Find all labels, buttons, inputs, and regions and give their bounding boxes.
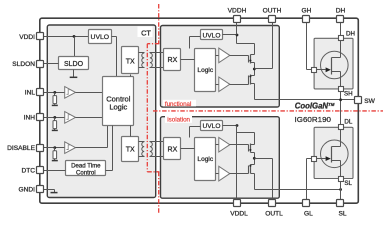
svg-text:Logic: Logic <box>197 67 213 74</box>
svg-text:SLDO: SLDO <box>64 61 84 68</box>
svg-text:UVLO: UVLO <box>203 33 221 40</box>
svg-text:DH: DH <box>336 7 346 14</box>
svg-text:OUTL: OUTL <box>265 211 283 217</box>
svg-text:TX: TX <box>126 58 135 65</box>
svg-text:GH: GH <box>301 7 311 14</box>
svg-text:VDDL: VDDL <box>230 211 248 217</box>
svg-text:RX: RX <box>168 146 178 153</box>
svg-text:VDDI: VDDI <box>19 34 35 41</box>
svg-text:GNDI: GNDI <box>19 187 36 194</box>
svg-text:isolation: isolation <box>167 117 190 124</box>
svg-text:OUTH: OUTH <box>263 7 282 14</box>
svg-text:DTC: DTC <box>21 167 35 174</box>
svg-text:DH: DH <box>346 31 355 38</box>
svg-text:VDDH: VDDH <box>228 7 247 14</box>
svg-text:Logic: Logic <box>109 103 127 112</box>
svg-text:UVLO: UVLO <box>203 123 221 130</box>
svg-text:SH: SH <box>344 91 353 98</box>
svg-text:RX: RX <box>168 57 178 64</box>
svg-text:INL: INL <box>25 90 36 97</box>
svg-text:CT: CT <box>141 29 151 38</box>
svg-text:DISABLE: DISABLE <box>7 145 35 152</box>
svg-text:INH: INH <box>24 115 36 122</box>
svg-text:TX: TX <box>126 146 135 153</box>
svg-text:UVLO: UVLO <box>91 34 110 41</box>
svg-text:GL: GL <box>304 211 313 217</box>
svg-text:SW: SW <box>364 98 375 105</box>
svg-text:Logic: Logic <box>197 156 213 163</box>
svg-text:DL: DL <box>344 119 352 126</box>
svg-text:functional: functional <box>165 101 192 108</box>
svg-text:SL: SL <box>344 180 352 187</box>
svg-text:Control: Control <box>76 169 96 176</box>
svg-text:SL: SL <box>338 211 346 217</box>
svg-text:SLDON: SLDON <box>12 61 35 68</box>
svg-text:IG60R190: IG60R190 <box>295 115 332 124</box>
